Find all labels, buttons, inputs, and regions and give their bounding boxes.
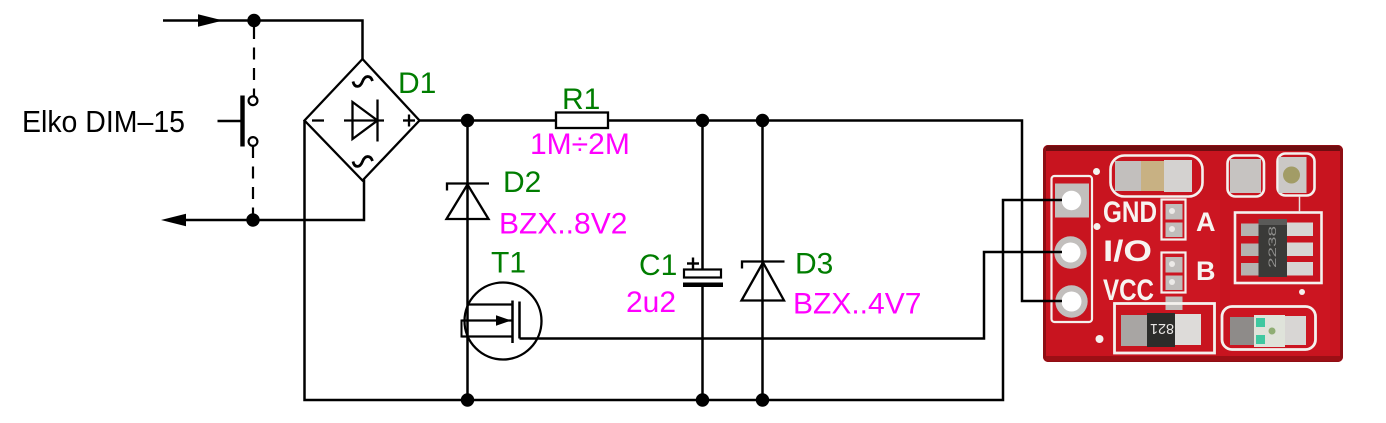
svg-text:Elko DIM–15: Elko DIM–15 [22, 104, 185, 139]
svg-text:D3: D3 [795, 248, 833, 281]
arrow: T1 channel arrow [496, 315, 511, 325]
node: C1 top junction [696, 114, 709, 127]
svg-text:BZX..4V7: BZX..4V7 [793, 288, 921, 321]
svg-text:VCC: VCC [1103, 274, 1154, 307]
wire: C1 branch upper [701, 121, 704, 271]
wire: D2 / T1 branch vertical [466, 121, 469, 401]
module: via bottom left [1096, 335, 1104, 343]
capacitor C1 (electrolytic) [683, 258, 723, 288]
svg-text:T1: T1 [491, 247, 526, 280]
zener diode D3 [742, 262, 785, 301]
wire: DC plus rail from R1 right to corner, down to VCC pad [608, 121, 1061, 302]
svg-text:B: B [1196, 256, 1216, 286]
wire: DC plus rail from bridge right vertex to R1 [420, 119, 557, 122]
wire: C1 branch lower [701, 287, 704, 400]
wire: dashed link lower [252, 146, 254, 214]
wire: VCC lead end over pad [1043, 300, 1062, 303]
switch S1 (pushbutton of DIM-15) [218, 96, 258, 147]
wire: I/O lead end over pad [1043, 251, 1062, 254]
module: VCC pad [1055, 285, 1087, 317]
transistor T1 (MOSFET) [462, 283, 542, 360]
svg-text:2238: 2238 [1267, 226, 1279, 268]
wire: GND lead end over pad [1043, 199, 1062, 202]
wire: bottom AC line from bridge [182, 180, 364, 221]
bridge rectifier D1 [305, 59, 420, 181]
module: pad header outline [1052, 176, 1093, 322]
module: top capacitor [1111, 156, 1203, 197]
module: jumper B pads [1162, 253, 1186, 311]
module: bottom resistor 821 [1115, 304, 1215, 354]
module: top square pad [1228, 156, 1265, 197]
arrow: AC return (points left) [161, 214, 186, 227]
svg-text:1M÷2M: 1M÷2M [530, 128, 630, 161]
node: R1 left junction [461, 114, 474, 127]
zener diode D2 [447, 184, 490, 220]
svg-text:2u2: 2u2 [626, 286, 676, 319]
module: bottom LED [1222, 307, 1316, 350]
arrow: AC input (points right) [198, 14, 223, 26]
module: top hole pad [1278, 154, 1315, 196]
svg-text:A: A [1196, 207, 1216, 237]
module: silk line right [1299, 196, 1301, 212]
module: GND pad [1055, 184, 1089, 218]
svg-text:D1: D1 [398, 67, 436, 100]
svg-text:I/O: I/O [1103, 235, 1152, 268]
module: IC U1 [1235, 213, 1322, 284]
wire: dashed link upper [253, 27, 255, 96]
module: via top left [1093, 168, 1100, 175]
module: silk dot right [1299, 289, 1305, 295]
module: jumper A pads [1162, 200, 1186, 240]
wire: D3 branch vertical [761, 121, 764, 401]
resistor R1 [556, 113, 608, 129]
wire: T1 gate to I/O pad [520, 252, 1062, 339]
module: I/O pad [1054, 236, 1086, 268]
touch module PCB (TTP223) [1043, 145, 1343, 362]
wire: DC minus from bridge left vertex down, bottom rail, up to GND pad [305, 121, 1062, 401]
svg-text:821: 821 [1150, 320, 1174, 337]
svg-text:D2: D2 [503, 166, 541, 199]
node: bottom AC junction [246, 213, 259, 226]
module: via near GND [1094, 223, 1101, 230]
svg-text:GND: GND [1103, 196, 1157, 229]
node: D2 bottom rail junction [461, 393, 474, 406]
node: D3 top junction [756, 114, 769, 127]
svg-text:R1: R1 [562, 83, 600, 116]
node: D3 bottom rail junction [756, 393, 769, 406]
wire: top AC line into bridge [163, 21, 363, 61]
svg-text:BZX..8V2: BZX..8V2 [499, 208, 627, 241]
node: C1 bottom rail junction [696, 393, 709, 406]
node: top AC junction [247, 14, 260, 27]
svg-text:C1: C1 [639, 249, 677, 282]
